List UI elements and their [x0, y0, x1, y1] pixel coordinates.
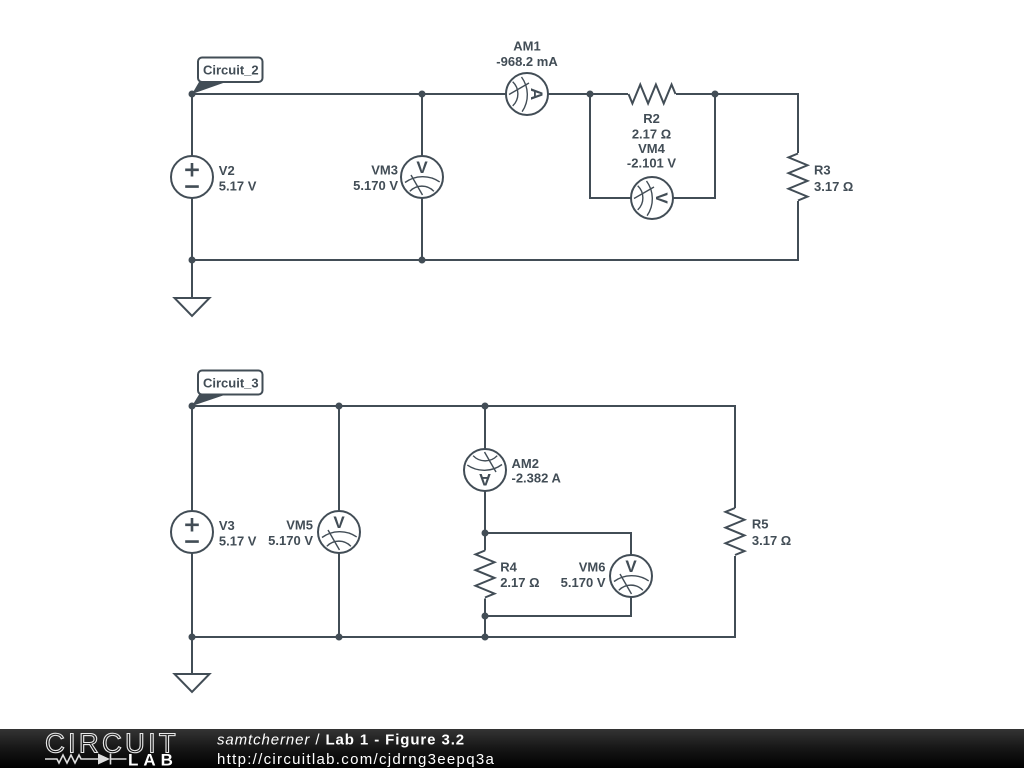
svg-text:samtcherner / Lab 1 - Figure 3: samtcherner / Lab 1 - Figure 3.2: [217, 731, 465, 748]
svg-text:V: V: [333, 513, 345, 532]
svg-text:-2.382 A: -2.382 A: [512, 471, 562, 486]
svg-text:V: V: [416, 158, 428, 177]
svg-text:R4: R4: [500, 560, 517, 575]
svg-text:A: A: [479, 470, 491, 489]
svg-text:3.17 Ω: 3.17 Ω: [814, 179, 853, 194]
svg-text:V2: V2: [219, 163, 235, 178]
svg-text:R2: R2: [643, 111, 660, 126]
svg-text:V: V: [625, 557, 637, 576]
svg-text:V: V: [652, 192, 671, 204]
svg-text:-968.2 mA: -968.2 mA: [496, 54, 558, 69]
svg-text:V3: V3: [219, 518, 235, 533]
svg-text:2.17 Ω: 2.17 Ω: [500, 575, 539, 590]
svg-text:AM2: AM2: [512, 456, 539, 471]
svg-text:VM6: VM6: [579, 560, 606, 575]
svg-text:VM5: VM5: [286, 518, 313, 533]
svg-text:LAB: LAB: [128, 751, 178, 768]
svg-text:R5: R5: [752, 517, 769, 532]
svg-text:Circuit_3: Circuit_3: [203, 376, 259, 391]
svg-text:5.170 V: 5.170 V: [268, 533, 313, 548]
svg-text:AM1: AM1: [513, 39, 540, 54]
svg-text:5.170 V: 5.170 V: [353, 178, 398, 193]
svg-text:Circuit_2: Circuit_2: [203, 63, 259, 78]
svg-text:R3: R3: [814, 162, 831, 177]
svg-text:3.17 Ω: 3.17 Ω: [752, 533, 791, 548]
svg-text:VM4: VM4: [638, 141, 666, 156]
svg-text:5.17 V: 5.17 V: [219, 534, 257, 549]
svg-text:5.170 V: 5.170 V: [561, 575, 606, 590]
svg-text:A: A: [527, 88, 546, 100]
svg-text:2.17 Ω: 2.17 Ω: [632, 127, 671, 142]
svg-text:5.17 V: 5.17 V: [219, 179, 257, 194]
svg-text:-2.101 V: -2.101 V: [627, 156, 676, 171]
svg-text:VM3: VM3: [371, 163, 398, 178]
svg-text:http://circuitlab.com/cjdrng3e: http://circuitlab.com/cjdrng3eepq3a: [217, 751, 495, 768]
